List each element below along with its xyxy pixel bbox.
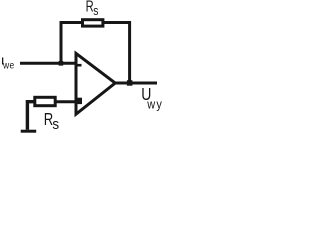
svg-text:s: s	[52, 116, 59, 133]
svg-text:we: we	[2, 60, 14, 71]
svg-text:wy: wy	[146, 97, 163, 112]
svg-text:s: s	[93, 4, 98, 18]
